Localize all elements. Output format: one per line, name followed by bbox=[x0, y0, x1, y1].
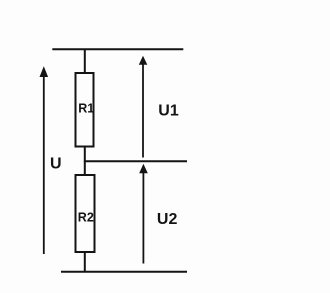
voltage arrow U2 bbox=[139, 164, 177, 264]
svg-text:U2: U2 bbox=[157, 211, 178, 228]
middle node rail wire bbox=[84, 160, 187, 162]
wire top rail to R1 bbox=[84, 49, 86, 74]
voltage arrow U1 bbox=[139, 56, 179, 158]
wire R2 bottom to bottom rail bbox=[84, 251, 86, 272]
bottom rail wire bbox=[61, 271, 187, 273]
svg-text:R1: R1 bbox=[78, 102, 94, 116]
wire R1 bottom to middle node bbox=[84, 146, 86, 162]
wire middle node to R2 bbox=[84, 161, 86, 176]
top rail wire bbox=[52, 48, 183, 50]
resistor R1 bbox=[76, 73, 95, 147]
svg-text:U1: U1 bbox=[158, 103, 179, 120]
svg-text:U: U bbox=[50, 156, 62, 173]
svg-text:R2: R2 bbox=[78, 210, 94, 224]
resistor R2 bbox=[76, 175, 95, 252]
voltage arrow U bbox=[40, 66, 62, 254]
